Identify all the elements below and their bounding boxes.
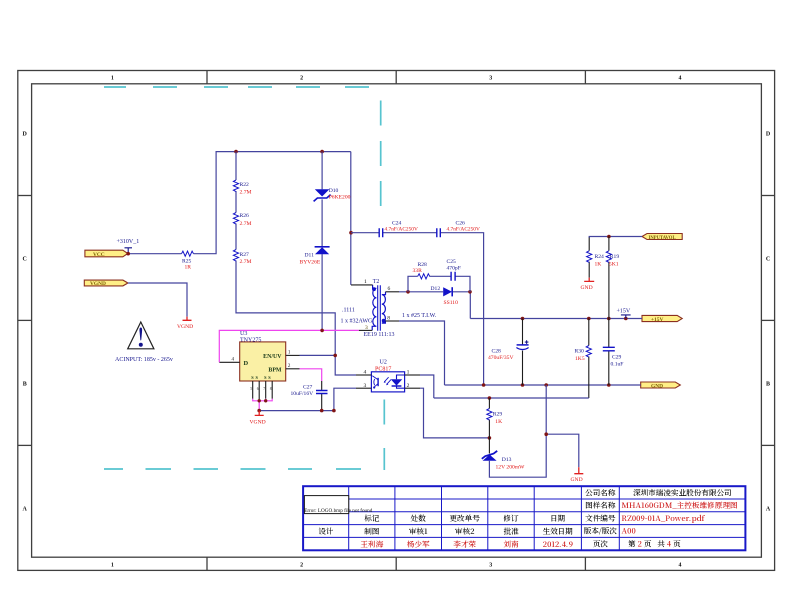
svg-text:处数: 处数 (410, 513, 427, 524)
secondary ground rail (399, 321, 641, 385)
svg-text:标记: 标记 (364, 513, 380, 524)
power label +310V_1 (117, 239, 140, 253)
capacitor C27 (321, 381, 323, 411)
wire EN/UV to divider (300, 354, 336, 356)
+15V rail (470, 318, 642, 320)
svg-text:设计: 设计 (318, 526, 334, 537)
svg-text:P6KE200: P6KE200 (329, 195, 351, 201)
svg-text:R19: R19 (610, 254, 620, 260)
svg-text:3: 3 (489, 562, 492, 568)
svg-text:2.7M: 2.7M (240, 189, 252, 195)
svg-text:2012.4.9: 2012.4.9 (543, 539, 573, 550)
zone reference labels (23, 76, 771, 569)
isolation boundary dashed line vertical upper (380, 101, 382, 207)
svg-text:GND: GND (571, 477, 583, 483)
svg-text:A00: A00 (622, 526, 636, 537)
wire HV rail right drop to C24 node and T2 pin1 (350, 152, 352, 285)
port INPUTAVOL (642, 234, 682, 240)
wire U2 pin2 to zener node (420, 388, 489, 438)
svg-text:GND: GND (581, 285, 593, 291)
svg-text:6: 6 (388, 286, 391, 292)
svg-text:1K5: 1K5 (575, 356, 585, 362)
svg-text:刘南: 刘南 (503, 539, 519, 550)
U2 phototransistor (377, 378, 379, 386)
svg-text:5K1: 5K1 (609, 261, 619, 267)
source pins magenta bus (253, 399, 273, 411)
svg-text:RZ009-01A_Power.pdf: RZ009-01A_Power.pdf (622, 513, 706, 524)
resistor R29 (488, 398, 490, 438)
wire VCC to R25 (128, 253, 181, 255)
svg-text:BYV26E: BYV26E (300, 259, 321, 265)
svg-text:.1111: .1111 (342, 307, 355, 313)
svg-text:日期: 日期 (550, 513, 566, 524)
svg-text:B: B (766, 382, 770, 388)
svg-text:TNY275: TNY275 (240, 337, 261, 343)
svg-text:更改单号: 更改单号 (450, 513, 481, 524)
resistor R22 (233, 180, 238, 192)
primary ground rail VGND (259, 388, 356, 410)
wire INPUTAVOL (589, 237, 642, 239)
svg-text:+15V: +15V (617, 308, 631, 314)
diode D11 BYV26E (315, 246, 330, 248)
svg-text:图样名称: 图样名称 (585, 500, 616, 511)
svg-text:1K: 1K (595, 261, 602, 267)
transformer T2 (372, 285, 385, 331)
svg-text:修订: 修订 (503, 513, 519, 524)
svg-text:4.7nF/AC250V: 4.7nF/AC250V (385, 226, 419, 232)
svg-text:+15V: +15V (651, 317, 663, 323)
svg-text:VGND: VGND (177, 324, 193, 330)
svg-text:深圳市瑞凌实业股份有限公司: 深圳市瑞凌实业股份有限公司 (633, 487, 732, 498)
svg-text:3: 3 (489, 76, 492, 82)
svg-text:版本/版次: 版本/版次 (584, 526, 618, 537)
T2 pin 6 lead (386, 291, 400, 293)
svg-text:R27: R27 (240, 252, 250, 258)
optocoupler U2 PC817 (371, 372, 404, 392)
svg-text:SS110: SS110 (444, 300, 459, 306)
svg-text:王利海: 王利海 (360, 539, 383, 550)
svg-text:审核1: 审核1 (409, 526, 428, 537)
svg-text:C27: C27 (303, 385, 313, 391)
svg-text:33R: 33R (413, 268, 423, 274)
svg-text:B: B (23, 382, 27, 388)
node dots on HV rail (126, 252, 130, 256)
svg-text:U3: U3 (240, 331, 247, 337)
U2 LED (397, 375, 405, 388)
svg-text:12V 200mW: 12V 200mW (496, 464, 526, 470)
U2 pin 1 lead (405, 374, 420, 376)
svg-text:2: 2 (300, 76, 303, 82)
svg-text:杨少军: 杨少军 (407, 539, 430, 550)
warning triangle ACINPUT (128, 322, 154, 349)
svg-text:R26: R26 (240, 213, 250, 219)
svg-text:T2: T2 (373, 279, 380, 285)
svg-text:C29: C29 (612, 354, 622, 360)
svg-text:1: 1 (111, 76, 114, 82)
svg-text:1 x #32AWG: 1 x #32AWG (341, 318, 374, 324)
wire U2 pin1 to feedback node (420, 375, 589, 398)
U3 pin 2 lead (286, 368, 300, 370)
power ground symbol GND (secondary) (574, 467, 583, 474)
svg-text:C: C (23, 257, 27, 263)
svg-text:李才荣: 李才荣 (453, 539, 476, 550)
svg-text:页次: 页次 (593, 539, 609, 550)
svg-text:3: 3 (365, 325, 368, 331)
svg-text:A: A (766, 507, 771, 513)
svg-text:R30: R30 (575, 348, 585, 354)
svg-text:R25: R25 (182, 258, 192, 264)
svg-text:470pF: 470pF (447, 266, 461, 272)
svg-text:4.7nF/AC250V: 4.7nF/AC250V (447, 226, 481, 232)
secondary rectifier wire pin6 to D12 (399, 292, 470, 319)
title block (303, 486, 745, 550)
power ground symbol VGND (U3 sources) (255, 411, 264, 416)
T2 pin 3 lead (359, 329, 372, 331)
wire to secondary ground symbol (546, 434, 579, 467)
svg-text:C28: C28 (492, 348, 502, 354)
zener diode D13 (488, 438, 490, 454)
svg-text:10uF/16V: 10uF/16V (291, 391, 314, 397)
resistor R26 (233, 213, 238, 225)
svg-text:0.1uF: 0.1uF (611, 361, 624, 367)
U2 pin 2 lead (405, 387, 420, 389)
svg-text:D10: D10 (329, 188, 339, 194)
svg-text:1R: 1R (185, 265, 192, 271)
svg-text:D13: D13 (502, 457, 512, 463)
svg-text:U2: U2 (380, 359, 387, 365)
svg-text:1: 1 (407, 370, 410, 376)
svg-text:VCC: VCC (93, 252, 105, 258)
U2 pin 4 lead (356, 374, 371, 376)
wire VGND port (128, 283, 187, 317)
svg-text:Error: LOGO.bmp file not found: Error: LOGO.bmp file not found (304, 507, 373, 514)
logo placeholder box (304, 496, 348, 514)
svg-text:4: 4 (679, 76, 682, 82)
svg-text:7: 7 (263, 387, 265, 391)
svg-text:D: D (244, 360, 249, 367)
TVS diode D10 P6KE200 (315, 189, 330, 196)
svg-text:审核2: 审核2 (455, 526, 475, 537)
svg-text:1: 1 (111, 562, 114, 568)
diode D12 SS110 (443, 287, 452, 296)
svg-text:+310V_1: +310V_1 (117, 239, 140, 245)
svg-text:3: 3 (364, 383, 367, 389)
svg-text:2.7M: 2.7M (240, 259, 252, 265)
resistor R27 (233, 250, 238, 262)
svg-text:生效日期: 生效日期 (543, 526, 574, 537)
svg-text:5: 5 (250, 387, 252, 391)
port VCC (85, 250, 128, 257)
capacitor C24 (379, 228, 383, 237)
port GND (641, 382, 681, 388)
capacitor C29 (608, 319, 610, 386)
svg-text:2: 2 (300, 562, 303, 568)
svg-text:D12: D12 (431, 286, 441, 292)
U2 pin 3 lead (356, 387, 371, 389)
U3 source pins (253, 381, 273, 401)
svg-text:第 2 页 共 4 页: 第 2 页 共 4 页 (628, 539, 681, 550)
T2 pin 1 lead (351, 284, 373, 286)
resistor R24 (587, 251, 592, 263)
T2 pin 8 lead (385, 320, 399, 322)
svg-text:文件编号: 文件编号 (585, 513, 616, 524)
IC U3 TNY275 (240, 342, 286, 381)
svg-text:PC817: PC817 (375, 366, 391, 372)
svg-text:VGND: VGND (250, 420, 266, 426)
isolation boundary dashed line vertical lower (383, 400, 385, 471)
svg-text:C25: C25 (447, 259, 457, 265)
svg-text:EE19 111:13: EE19 111:13 (364, 332, 395, 338)
title block signatures (360, 539, 573, 550)
svg-text:D11: D11 (305, 253, 315, 259)
wire R25 up to HV rail (194, 152, 351, 254)
isolation boundary dashed line bottom (104, 468, 361, 470)
isolation boundary dashed line top (104, 87, 384, 470)
power ground symbol GND (R24) (584, 278, 594, 282)
svg-text:VGND: VGND (90, 281, 106, 287)
svg-text:R22: R22 (240, 182, 250, 188)
svg-text:1 x #25 T.I.W.: 1 x #25 T.I.W. (402, 313, 437, 319)
port VGND (84, 280, 128, 286)
svg-text:4: 4 (364, 370, 367, 376)
title block row headers (318, 487, 617, 549)
svg-text:GND: GND (651, 383, 663, 389)
resistor chain vertical wire (236, 152, 356, 375)
svg-text:EN/UV: EN/UV (263, 354, 282, 360)
capacitor C26 (437, 228, 441, 237)
svg-text:批准: 批准 (503, 526, 518, 537)
U2 light arrows (384, 377, 391, 384)
U3 pin 1 lead (286, 354, 300, 356)
svg-text:2: 2 (407, 383, 410, 389)
svg-text:R29: R29 (493, 411, 503, 417)
svg-text:BPM: BPM (268, 367, 282, 373)
svg-text:4: 4 (679, 562, 682, 568)
clamp diode chain wire (321, 152, 323, 331)
svg-text:R24: R24 (595, 254, 605, 260)
resistor R19 (608, 237, 610, 319)
svg-text:6: 6 (257, 387, 259, 391)
resistor R30 (588, 319, 590, 399)
U3 pin 4 lead (219, 361, 239, 363)
wire BPM magenta to C27 (300, 369, 322, 381)
capacitor C25 (451, 272, 455, 281)
wire drain D magenta to T2 pin3 (219, 330, 359, 362)
svg-text:D: D (766, 132, 771, 138)
svg-text:2.7M: 2.7M (240, 221, 252, 227)
port +15V (642, 315, 682, 321)
svg-text:ACINPUT: 185v - 265v: ACINPUT: 185v - 265v (115, 357, 173, 363)
svg-text:8: 8 (387, 316, 390, 322)
svg-text:MHA160GDM_主控板维修原理图: MHA160GDM_主控板维修原理图 (622, 500, 738, 511)
X-cap coupling wire C24 C26 (351, 233, 484, 385)
svg-text:D: D (23, 132, 28, 138)
resistor R28 (418, 274, 430, 279)
svg-text:A: A (23, 507, 28, 513)
svg-text:1K: 1K (495, 419, 502, 425)
svg-text:C: C (766, 257, 770, 263)
svg-text:制图: 制图 (363, 526, 380, 537)
svg-text:公司名称: 公司名称 (585, 487, 616, 498)
svg-text:470uF/35V: 470uF/35V (488, 355, 514, 361)
resistor R25 (182, 251, 194, 256)
svg-text:INPUTAVOL: INPUTAVOL (649, 236, 676, 241)
svg-text:1: 1 (364, 279, 367, 285)
svg-text:8: 8 (270, 387, 272, 391)
snubber branch R28 C25 (408, 276, 470, 292)
power ground symbol VGND (input) (183, 317, 192, 321)
electrolytic capacitor C28 (522, 319, 524, 386)
